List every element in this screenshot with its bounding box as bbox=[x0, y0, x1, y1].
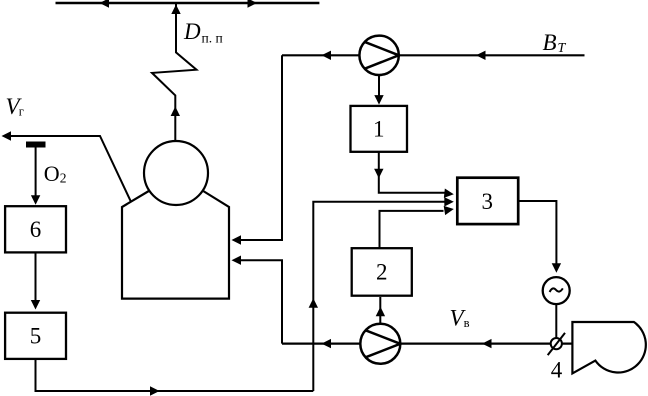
O2 probe bar bbox=[26, 142, 46, 148]
arrow down into motor bbox=[552, 263, 561, 273]
wire steam header bbox=[56, 2, 320, 4]
svg-text:5: 5 bbox=[30, 324, 42, 349]
boiler drum circle bbox=[144, 141, 208, 205]
arrow left into boiler lower bbox=[232, 256, 242, 265]
svg-text:3: 3 bbox=[481, 189, 493, 214]
arrow down into box 1 bbox=[374, 95, 383, 105]
svg-text:1: 1 bbox=[373, 117, 385, 142]
label O2 bbox=[44, 161, 67, 186]
wire O2 sample bbox=[35, 148, 37, 198]
label B_T bbox=[543, 30, 567, 56]
wire box6 to box5 bbox=[35, 252, 37, 301]
svg-text:D: D bbox=[183, 19, 201, 44]
wire fuel feed vertical bbox=[240, 55, 283, 240]
svg-text:O: O bbox=[44, 161, 60, 186]
arrow down into box 5 bbox=[31, 300, 40, 310]
wire pump to box 1 bbox=[378, 75, 380, 97]
fuel pump bbox=[359, 36, 398, 75]
wire box2 to box3 bbox=[380, 211, 444, 248]
wire air feed to boiler bbox=[240, 260, 283, 343]
label 4 bbox=[551, 357, 563, 382]
arrow right into box 3 bottom bbox=[444, 204, 455, 215]
arrow up into header bbox=[171, 5, 180, 15]
svg-text:2: 2 bbox=[376, 260, 388, 285]
wire motor to damper bbox=[555, 304, 557, 344]
arrow left on fuel supply left bbox=[322, 51, 332, 60]
arrow left on steam header bbox=[100, 0, 110, 8]
svg-text:6: 6 bbox=[30, 217, 42, 242]
box 5 bbox=[5, 313, 66, 359]
svg-text:B: B bbox=[543, 30, 557, 55]
arrow up on air correction riser bbox=[309, 298, 318, 308]
arrow right into box 3 top bbox=[444, 189, 454, 199]
svg-text:2: 2 bbox=[60, 171, 67, 186]
label D_p.p bbox=[183, 19, 223, 46]
wire air duct bbox=[282, 343, 572, 345]
label V_g bbox=[6, 94, 24, 119]
boiler furnace body bbox=[122, 191, 229, 299]
svg-text:г: г bbox=[19, 105, 24, 119]
arrow right on steam header bbox=[248, 0, 258, 8]
wire box1 to box3 bbox=[379, 152, 445, 193]
arrow up on riser bbox=[171, 107, 180, 117]
arrow left on air duct left bbox=[322, 339, 332, 348]
wire pump2 to box 2 bbox=[379, 297, 381, 324]
arrow right on box5 wire bbox=[150, 386, 160, 395]
arrow right into box 3 middle bbox=[444, 197, 454, 206]
svg-text:п. п: п. п bbox=[202, 31, 223, 46]
wire flue gas V_g bbox=[8, 136, 131, 201]
svg-text:4: 4 bbox=[551, 357, 563, 382]
box 1 bbox=[351, 106, 408, 152]
damper valve bbox=[551, 338, 562, 349]
arrow up into box 2 bbox=[376, 307, 385, 317]
box 2 bbox=[352, 248, 412, 296]
arrow left flue gas bbox=[2, 131, 12, 140]
wire box5 to air riser bbox=[36, 359, 314, 391]
svg-text:в: в bbox=[464, 316, 470, 330]
box 3 bbox=[457, 178, 518, 224]
wire fuel supply B_T bbox=[282, 54, 585, 56]
air fan pump bbox=[360, 324, 400, 364]
arrow down on box1 wire bbox=[374, 169, 383, 179]
arrow left into boiler upper bbox=[232, 235, 242, 244]
motor bbox=[543, 277, 570, 304]
fan scroll bbox=[572, 322, 645, 373]
wire steam riser with zigzag bbox=[152, 4, 197, 141]
box 6 bbox=[5, 206, 66, 252]
arrow left on air duct right bbox=[482, 339, 492, 348]
label V_v bbox=[450, 306, 470, 331]
arrow left on fuel supply right bbox=[476, 51, 486, 60]
svg-text:T: T bbox=[558, 41, 567, 56]
wire box3 to motor bbox=[518, 201, 556, 265]
wire air correction riser bbox=[313, 202, 445, 391]
arrow down into box 6 bbox=[31, 195, 40, 205]
